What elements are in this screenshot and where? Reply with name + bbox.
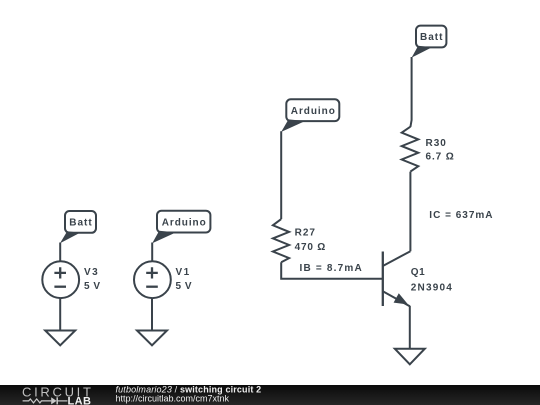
svg-text:2N3904: 2N3904 [411,283,453,294]
ground (V1) [137,331,167,346]
svg-text:5 V: 5 V [176,281,193,292]
wire Arduino flag to R27 [280,131,282,219]
V3 minus sign [54,286,66,288]
wire V3 to ground [59,298,61,330]
transistor Q1 [383,251,453,306]
svg-text:Q1: Q1 [411,267,425,278]
CircuitLab logo resistor-diode glyph [23,399,52,403]
Q1 base bar [382,252,384,307]
V3 source circle [42,261,79,298]
footer bar [0,385,540,405]
Q1 collector lead [383,251,411,266]
resistor R30 [402,127,419,172]
svg-text:470 Ω: 470 Ω [295,242,326,253]
V1 minus sign [146,286,158,288]
wire R27 to Q1 base [281,262,383,278]
V3 plus sign [54,267,66,278]
svg-text:Batt: Batt [69,218,92,229]
svg-text:Arduino: Arduino [162,217,207,228]
wire Q1 emitter to ground [409,306,411,349]
Q1 emitter lead [383,291,410,306]
svg-text:5 V: 5 V [84,281,101,292]
wire V1 to ground [151,298,153,330]
wire R30 to Q1 collector [409,172,411,252]
svg-text:IB = 8.7mA: IB = 8.7mA [300,263,363,274]
node flag Batt (V3) [60,211,96,243]
svg-text:R30: R30 [426,138,447,149]
V1 source circle [134,261,171,298]
svg-text:IC = 637mA: IC = 637mA [429,210,493,221]
ground (Q1 emitter) [395,349,425,365]
wire Batt flag to R30 [410,57,411,127]
svg-text:V1: V1 [176,267,191,278]
wire flag to V3 [59,243,61,262]
svg-text:V3: V3 [84,267,99,278]
svg-text:Arduino: Arduino [291,106,336,117]
node flag Arduino (top) [281,99,339,132]
node flag Batt (top right) [412,26,447,58]
svg-text:LAB: LAB [68,396,92,405]
wire flag to V1 [151,243,153,262]
Q1 emitter arrow [395,295,407,304]
svg-text:R27: R27 [295,228,316,239]
voltage source V3 [42,211,100,345]
ground (V3) [45,331,75,346]
voltage source V1 [134,211,210,346]
resistor R27 [273,219,289,262]
node flag Arduino (V1) [152,211,210,244]
svg-text:6.7 Ω: 6.7 Ω [426,151,455,162]
V1 plus sign [146,267,158,278]
svg-text:http://circuitlab.com/cm7xtnk: http://circuitlab.com/cm7xtnk [116,393,230,403]
svg-text:Batt: Batt [420,32,443,43]
